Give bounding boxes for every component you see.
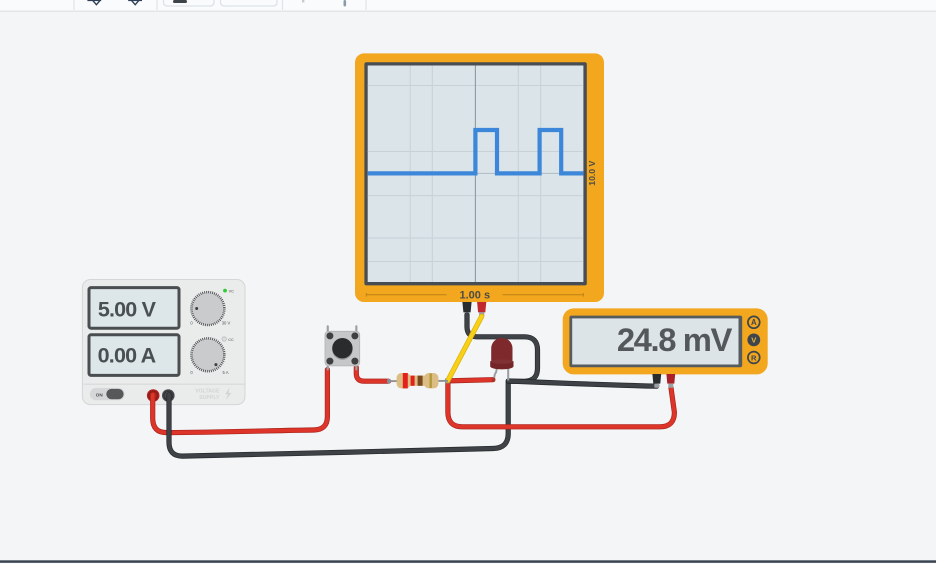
anode leg xyxy=(494,367,497,380)
resistor R1 (220 ohm: red red brown gold) xyxy=(387,373,448,388)
pushbutton S1 xyxy=(325,325,360,370)
center grid lines xyxy=(474,66,476,283)
power supply P1 xyxy=(82,280,245,405)
scope screen bezel xyxy=(364,62,586,285)
flange xyxy=(490,361,513,369)
leads xyxy=(389,380,399,382)
body xyxy=(397,373,411,388)
on switch xyxy=(90,388,125,400)
band 3 brown xyxy=(418,376,423,386)
voltage display xyxy=(89,288,179,329)
svg-text:10.0 V: 10.0 V xyxy=(587,160,597,185)
current display xyxy=(89,335,179,376)
wire red junction to LED anode xyxy=(448,380,493,381)
svg-text:30 V: 30 V xyxy=(222,321,231,326)
display xyxy=(572,318,738,364)
time scale ruler xyxy=(366,293,583,297)
wire red junction to multimeter + xyxy=(448,382,675,427)
PSU terminal + xyxy=(147,389,160,402)
scope body xyxy=(355,53,604,302)
display bezel xyxy=(569,316,742,368)
CC indicator xyxy=(222,337,226,341)
button 1 outline xyxy=(164,0,215,6)
grid lines xyxy=(368,66,584,283)
svg-text:ON: ON xyxy=(96,392,104,397)
multimeter M1 xyxy=(563,308,768,387)
voltage knob xyxy=(192,293,224,325)
svg-text:VOLTAGE: VOLTAGE xyxy=(195,389,220,395)
psu body xyxy=(82,280,245,405)
brand lightning bolt xyxy=(225,388,231,401)
waveform trace xyxy=(368,130,584,173)
scope red probe xyxy=(477,302,486,312)
svg-text:A: A xyxy=(751,318,757,327)
icon bottom: redo glyph xyxy=(128,0,142,5)
svg-text:5 A: 5 A xyxy=(222,370,228,375)
scope black probe xyxy=(462,302,471,312)
toolbar strip (cut off at top) xyxy=(0,0,936,11)
wire yellow junction to scope red probe xyxy=(448,316,482,380)
node A junction cap xyxy=(445,378,450,383)
button V (selected) xyxy=(747,334,760,347)
VC indicator xyxy=(223,289,227,293)
body xyxy=(325,331,360,366)
svg-text:1.00 s: 1.00 s xyxy=(460,289,491,301)
bottom bar xyxy=(0,560,936,564)
svg-text:0.00 A: 0.00 A xyxy=(98,343,156,367)
svg-text:SUPPLY: SUPPLY xyxy=(199,395,220,401)
current knob xyxy=(192,339,224,371)
body xyxy=(563,308,768,374)
button R xyxy=(748,352,760,364)
wire black PSU- to LED cathode xyxy=(169,381,508,456)
legs xyxy=(327,325,329,332)
wire red button to resistor xyxy=(356,368,388,382)
PSU terminal - xyxy=(162,389,175,402)
oscilloscope U1 xyxy=(355,53,604,316)
band 1 red xyxy=(403,373,408,388)
cathode leg xyxy=(507,367,509,381)
svg-text:R: R xyxy=(751,353,757,362)
divider xyxy=(84,383,245,385)
black probe xyxy=(652,374,661,384)
icon bottom: undo glyph xyxy=(87,0,101,5)
svg-text:24.8 mV: 24.8 mV xyxy=(617,321,733,358)
plunger shadow xyxy=(332,339,352,359)
band 4 gold xyxy=(430,373,432,388)
wire red PSU+ to button xyxy=(153,370,328,433)
body xyxy=(491,338,512,361)
svg-text:CC: CC xyxy=(228,338,234,342)
LED D1 xyxy=(490,338,513,382)
button A xyxy=(748,316,760,328)
svg-text:5.00 V: 5.00 V xyxy=(98,297,157,321)
button 2 outline xyxy=(221,0,278,6)
anode wire cap xyxy=(492,378,496,382)
band 2 red xyxy=(411,376,415,386)
red probe xyxy=(666,374,675,384)
scope screen xyxy=(368,66,584,283)
wire black LED cathode to multimeter - xyxy=(509,381,657,386)
wire black scope probe to LED cathode xyxy=(467,315,538,381)
plunger xyxy=(332,338,352,358)
svg-text:VC: VC xyxy=(229,289,235,293)
wire end cap left xyxy=(387,379,390,384)
corner contacts xyxy=(326,332,333,339)
